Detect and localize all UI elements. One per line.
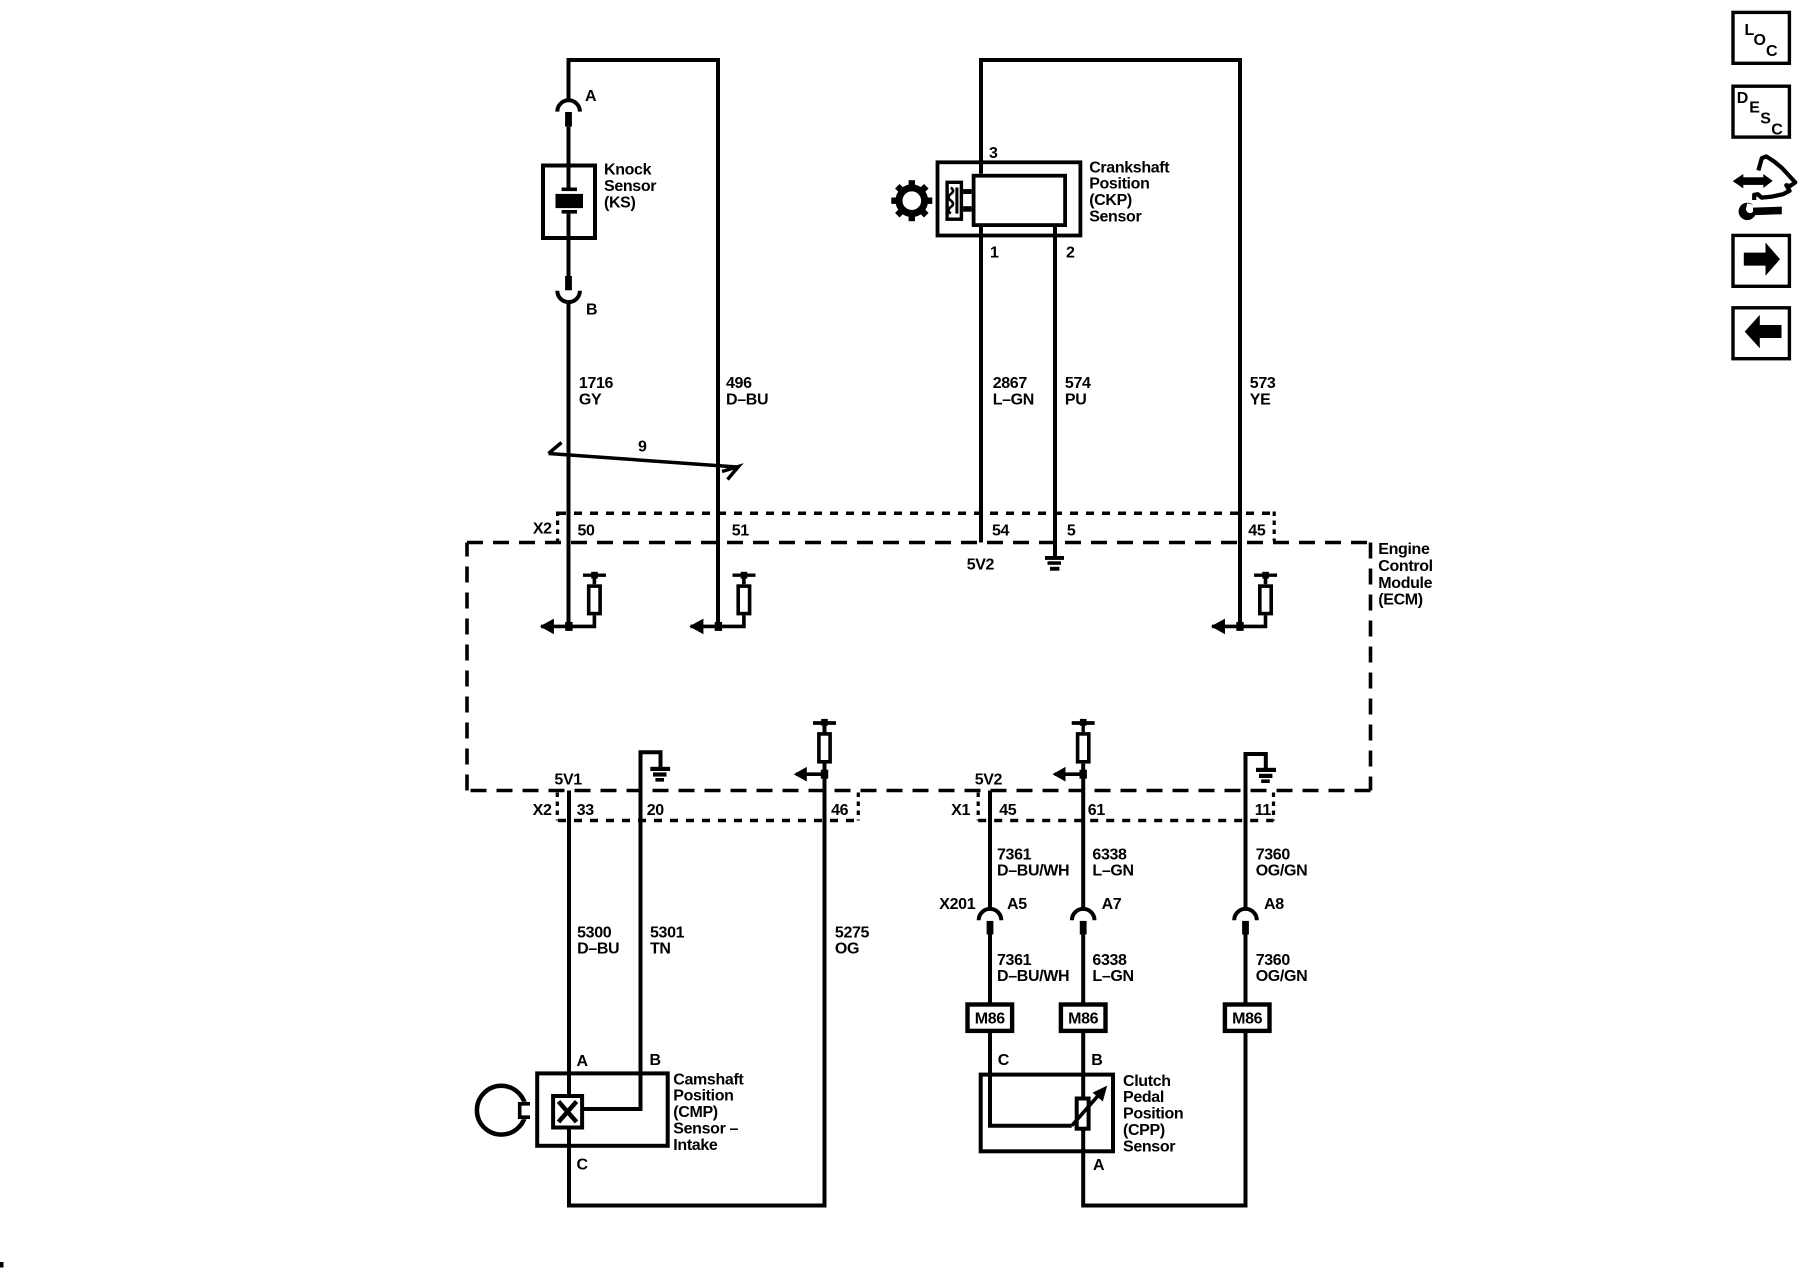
svg-text:9: 9 (638, 439, 647, 456)
svg-text:5V2: 5V2 (975, 772, 1003, 789)
icon LOC box (1733, 12, 1789, 63)
wire ECM ground pin 11 to X201 A8 (1246, 754, 1266, 910)
svg-text:D–BU/WH: D–BU/WH (997, 863, 1069, 880)
wire 574 PU CKP pin2 to ECM pin 5 ground (1053, 227, 1057, 556)
CKP pickup coil box (947, 182, 961, 219)
KS piezo element body (556, 194, 584, 208)
svg-text:Sensor –: Sensor – (673, 1121, 738, 1138)
svg-text:6338: 6338 (1092, 952, 1127, 969)
svg-text:2867: 2867 (993, 375, 1028, 392)
svg-text:5V1: 5V1 (554, 772, 582, 789)
svg-text:L–GN: L–GN (993, 391, 1034, 408)
svg-text:5: 5 (1067, 523, 1076, 540)
svg-text:1: 1 (990, 245, 999, 262)
wire 2867 L-GN CKP pin1 to ECM pin 54 (5V2) (979, 227, 983, 543)
connector X201 A5 pin (987, 921, 994, 935)
svg-text:5275: 5275 (835, 924, 870, 941)
wire ECM 5V2 pin 45 / 7361 D-BU/WH to X201 A5 (988, 791, 992, 910)
wire 1716 GY B-to-ECM pin 50 (567, 302, 571, 627)
svg-text:45: 45 (1248, 523, 1266, 540)
svg-text:Sensor: Sensor (1089, 209, 1141, 226)
svg-text:3: 3 (989, 145, 998, 162)
svg-text:11: 11 (1255, 802, 1272, 819)
harness 9 line (549, 454, 738, 468)
svg-text:C: C (577, 1157, 589, 1174)
svg-text:A: A (577, 1053, 589, 1070)
svg-text:A5: A5 (1007, 896, 1027, 913)
wire ECM ground / pin 20 / 5301 TN to CMP pin B with internal link (584, 752, 661, 1109)
ECM connector X2 lower strip dotted line (558, 819, 858, 823)
harness 9 left barb (549, 443, 562, 454)
connector X201 A5 arc (979, 909, 1002, 920)
svg-text:Camshaft: Camshaft (673, 1071, 744, 1088)
svg-text:(CPP): (CPP) (1123, 1122, 1165, 1139)
svg-text:X2: X2 (533, 521, 552, 538)
svg-text:D–BU/WH: D–BU/WH (997, 968, 1069, 985)
svg-text:C: C (1771, 121, 1783, 138)
svg-text:Sensor: Sensor (1123, 1138, 1175, 1155)
crankshaft position CKP sensor outer box (938, 162, 1081, 235)
wire 7361 D-BU/WH A5 to CPP pin C with internal link to wiper (990, 935, 1072, 1126)
svg-text:33: 33 (577, 802, 595, 819)
svg-text:Engine: Engine (1378, 541, 1430, 558)
connector B (KS) pin (565, 276, 572, 290)
wire CKP loop: 2867 L-GN up / top / 573 YE down to ECM pin 45 (981, 60, 1240, 626)
svg-text:X1: X1 (951, 802, 970, 819)
svg-text:L–GN: L–GN (1092, 968, 1133, 985)
svg-text:574: 574 (1065, 375, 1091, 392)
ECM pullup resistor at pin 45 (1211, 572, 1277, 634)
svg-text:7361: 7361 (997, 952, 1032, 969)
ECM ground pin 11 bars (1256, 768, 1276, 772)
svg-text:OG/GN: OG/GN (1256, 968, 1308, 985)
wire ECM pin 61 / 6338 L-GN to X201 A7 (1081, 764, 1085, 910)
CPP wiper arrow (1072, 1095, 1099, 1126)
svg-text:51: 51 (732, 523, 750, 540)
COMPONENT BOXES (537, 162, 1113, 1151)
ECM ground pin 5 bars (1045, 556, 1064, 560)
svg-text:GY: GY (579, 391, 602, 408)
svg-text:A: A (1093, 1157, 1105, 1174)
wire KS box-to-B (567, 214, 571, 277)
svg-text:D: D (1737, 90, 1748, 107)
connector A (KS) pin (565, 112, 572, 127)
svg-text:M86: M86 (1232, 1011, 1263, 1028)
wire KS A-to-box (567, 127, 571, 188)
X2 upper strip left cap (556, 512, 559, 542)
svg-text:5V2: 5V2 (967, 556, 995, 573)
svg-text:54: 54 (992, 523, 1010, 540)
svg-text:S: S (1760, 110, 1771, 127)
svg-text:7360: 7360 (1256, 846, 1291, 863)
splice M86 box 1 (968, 1005, 1013, 1031)
X1 lower strip right cap (1272, 793, 1275, 821)
svg-text:Sensor: Sensor (604, 178, 656, 195)
CMP reluctor ring (477, 1086, 526, 1135)
svg-text:TN: TN (650, 941, 671, 958)
svg-text:Knock: Knock (604, 162, 652, 179)
connector X201 A7 arc (1072, 909, 1095, 920)
CMP hall element box with X (553, 1096, 582, 1128)
svg-text:X2: X2 (533, 802, 552, 819)
svg-text:Position: Position (1123, 1106, 1183, 1123)
CKP sensor inner body box (974, 176, 1066, 225)
svg-text:7360: 7360 (1256, 952, 1291, 969)
svg-text:46: 46 (831, 802, 849, 819)
CKP pickup coil squiggle (949, 188, 954, 214)
svg-text:B: B (1091, 1052, 1102, 1069)
svg-text:OG: OG (835, 941, 859, 958)
camshaft position CMP sensor box (537, 1073, 668, 1145)
ECM connector X1 lower strip dotted line (978, 819, 1273, 823)
ECM resistor at pin 46 (794, 719, 836, 782)
svg-text:5300: 5300 (577, 924, 612, 941)
svg-text:D–BU: D–BU (726, 391, 768, 408)
icon DESC box (1733, 86, 1789, 137)
CKP reluctor gear (891, 180, 932, 221)
CKP pickup coil straight lead (955, 188, 958, 214)
connector X201 A8 arc (1234, 909, 1257, 920)
harness 9 right chevron (722, 467, 739, 480)
wire ECM 5V1 pin 33 / 5300 D-BU to CMP pin A (567, 791, 571, 1095)
svg-text:573: 573 (1250, 375, 1276, 392)
svg-text:A7: A7 (1102, 896, 1122, 913)
svg-text:Module: Module (1378, 575, 1432, 592)
svg-text:PU: PU (1065, 391, 1087, 408)
svg-text:A: A (585, 88, 597, 105)
ECM connector X2 upper strip dotted line (558, 512, 1274, 516)
knock sensor KS box (543, 166, 595, 239)
svg-text:7361: 7361 (997, 846, 1032, 863)
X2 upper strip right cap (1273, 512, 1276, 542)
svg-text:Intake: Intake (673, 1137, 718, 1154)
splice M86 box 2 (1061, 1005, 1106, 1031)
svg-text:Clutch: Clutch (1123, 1073, 1171, 1090)
X1 lower strip left cap (977, 793, 980, 821)
connector X201 A8 pin (1242, 921, 1249, 935)
svg-text:(CKP): (CKP) (1089, 192, 1132, 209)
icon arrow right box (1733, 235, 1789, 286)
ECM pullup resistor at pin 50 (540, 572, 606, 634)
svg-text:O: O (1754, 32, 1766, 49)
svg-text:(CMP): (CMP) (673, 1104, 717, 1121)
svg-text:Pedal: Pedal (1123, 1089, 1164, 1106)
CPP potentiometer body (1077, 1099, 1089, 1129)
svg-text:1716: 1716 (579, 375, 614, 392)
svg-text:61: 61 (1088, 802, 1106, 819)
svg-text:L–GN: L–GN (1092, 863, 1133, 880)
icon arrow left box (1733, 308, 1789, 359)
clutch pedal position CPP sensor box (981, 1075, 1113, 1152)
ECM pullup resistor at pin 51 (689, 572, 755, 634)
X2 lower strip left cap (556, 793, 559, 821)
svg-text:6338: 6338 (1092, 846, 1127, 863)
ICONS (1733, 12, 1796, 358)
svg-text:M86: M86 (975, 1011, 1006, 1028)
svg-text:A8: A8 (1264, 896, 1284, 913)
svg-text:C: C (1766, 43, 1778, 60)
svg-text:B: B (650, 1052, 661, 1069)
svg-text:(ECM): (ECM) (1378, 592, 1422, 609)
svg-text:Control: Control (1378, 558, 1432, 575)
connector A (KS) arc (557, 100, 580, 111)
svg-text:50: 50 (578, 523, 596, 540)
X2 lower strip right cap (857, 793, 860, 821)
svg-text:Position: Position (673, 1088, 733, 1105)
page artifact dot (0, 1262, 4, 1268)
svg-text:B: B (586, 302, 597, 319)
svg-text:2: 2 (1066, 245, 1075, 262)
svg-text:45: 45 (999, 802, 1017, 819)
connector X201 A7 pin (1080, 921, 1087, 935)
STRIPS (467, 512, 1371, 821)
CKP pickup coil tabs (963, 189, 972, 194)
svg-text:E: E (1749, 100, 1760, 117)
svg-text:Crankshaft: Crankshaft (1089, 159, 1170, 176)
svg-text:496: 496 (726, 375, 752, 392)
svg-text:5301: 5301 (650, 924, 685, 941)
svg-text:C: C (998, 1052, 1010, 1069)
svg-text:D–BU: D–BU (577, 941, 619, 958)
connector B (KS) arc (557, 291, 580, 302)
KS piezo element bottom plate (562, 210, 577, 214)
icon wrench and arrows (1733, 156, 1796, 220)
svg-text:OG/GN: OG/GN (1256, 863, 1308, 880)
ECM ground pin 20 bars (650, 767, 670, 771)
wire KS loop: 1716 GY up / top / 496 D-BU down to ECM pin 51 (569, 60, 719, 626)
wire CMP pin C to bottom / 5275 OG up to ECM pin 46 (569, 723, 825, 1206)
svg-text:Position: Position (1089, 176, 1149, 193)
ECM resistor at pin 61 (1053, 719, 1095, 782)
splice M86 box 3 (1225, 1005, 1270, 1031)
svg-text:X201: X201 (939, 896, 975, 913)
KS piezo element top plate (562, 188, 577, 192)
svg-text:M86: M86 (1068, 1011, 1099, 1028)
svg-text:(KS): (KS) (604, 194, 636, 211)
ECM box dashed outline (467, 541, 1371, 545)
svg-text:YE: YE (1250, 391, 1271, 408)
wire 6338 L-GN A7 to CPP pin B / pin A to bottom / 7360 OG/GN right side up to A8 (1083, 935, 1245, 1206)
svg-text:20: 20 (647, 802, 665, 819)
